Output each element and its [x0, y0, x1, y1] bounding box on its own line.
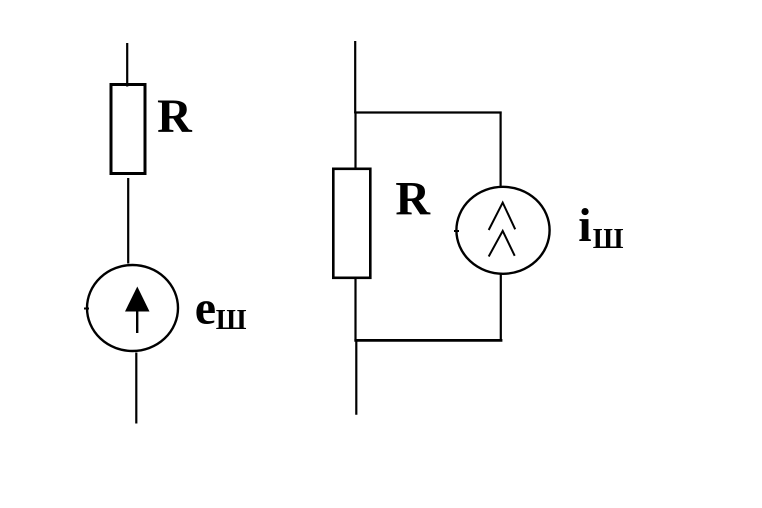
arrow stem of voltage source [136, 312, 138, 334]
svg-text:R: R [157, 90, 193, 143]
wire between resistor and source (left circuit) [127, 178, 129, 264]
resistor R (right circuit) [333, 169, 370, 278]
svg-text:Ш: Ш [216, 305, 247, 336]
svg-text:e: e [195, 281, 216, 334]
svg-text:Ш: Ш [593, 224, 624, 255]
svg-text:R: R [395, 173, 431, 226]
arrow head of voltage source [125, 287, 150, 312]
wire top lead of left branch [126, 43, 128, 87]
wire right branch upper (right circuit) [500, 112, 502, 188]
tick on left of voltage source circle [84, 308, 89, 310]
tick on left of current source circle [454, 230, 459, 232]
svg-text:i: i [578, 199, 591, 252]
current source iШ circle [456, 187, 549, 274]
resistor R (left circuit) [111, 85, 145, 174]
wire from resistor bottom to junction (right circuit) [354, 279, 356, 342]
wire bottom lead of left branch [135, 353, 137, 424]
wire top horizontal junction (right circuit) [354, 111, 501, 113]
wire bottom lead of right circuit [355, 342, 357, 415]
wire from junction to resistor top (right circuit) [354, 113, 356, 169]
voltage source eШ circle [87, 265, 178, 351]
wire bottom horizontal junction (right circuit) [354, 339, 502, 342]
upper chevron of current source [489, 203, 516, 230]
wire top lead of right circuit [354, 41, 356, 113]
wire right branch lower (right circuit) [500, 274, 502, 342]
lower chevron of current source [489, 231, 515, 257]
